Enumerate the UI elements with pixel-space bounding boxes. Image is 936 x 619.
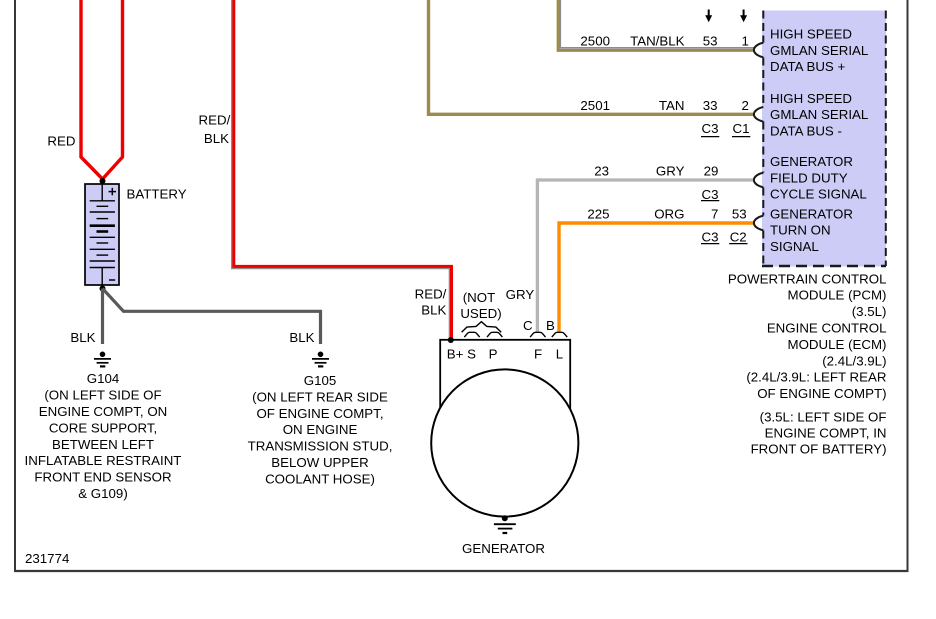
ground G104 bbox=[94, 352, 111, 367]
svg-text:POWERTRAIN CONTROL: POWERTRAIN CONTROL bbox=[728, 271, 887, 286]
label RED/BLK at generator bbox=[415, 287, 447, 318]
PCM module caption bbox=[728, 271, 887, 456]
bottom page border bbox=[14, 570, 909, 572]
svg-text:GENERATOR: GENERATOR bbox=[462, 541, 545, 556]
pin arrow 53 bbox=[705, 10, 712, 23]
caption G104 bbox=[25, 371, 182, 501]
node battery negative bbox=[100, 286, 106, 292]
svg-text:TAN: TAN bbox=[659, 98, 685, 113]
svg-text:GMLAN SERIAL: GMLAN SERIAL bbox=[770, 107, 868, 122]
svg-text:TRANSMISSION STUD,: TRANSMISSION STUD, bbox=[248, 439, 393, 454]
svg-text:ENGINE COMPT, ON: ENGINE COMPT, ON bbox=[39, 404, 168, 419]
svg-text:ENGINE CONTROL: ENGINE CONTROL bbox=[767, 321, 887, 336]
svg-text:C3: C3 bbox=[702, 187, 719, 202]
svg-text:(2.4L/3.9L: LEFT REAR: (2.4L/3.9L: LEFT REAR bbox=[746, 370, 886, 385]
svg-text:DATA BUS +: DATA BUS + bbox=[770, 59, 845, 74]
pin arrow 1 bbox=[740, 10, 747, 23]
svg-text:TAN/BLK: TAN/BLK bbox=[630, 34, 685, 49]
label (NOT USED) bbox=[460, 290, 501, 321]
generator terminal box bbox=[440, 340, 570, 412]
svg-text:MODULE (ECM): MODULE (ECM) bbox=[788, 337, 887, 352]
svg-text:BATTERY: BATTERY bbox=[127, 187, 187, 202]
label connector C2 row4 bbox=[729, 230, 747, 245]
wire RED battery feed V bbox=[81, 0, 102, 179]
PCM box right dashed edge bbox=[885, 11, 887, 267]
svg-text:53: 53 bbox=[732, 207, 747, 222]
PCM box left dashed edge bbox=[762, 11, 764, 267]
svg-text:B+ S: B+ S bbox=[447, 346, 476, 361]
svg-text:GRY: GRY bbox=[506, 287, 535, 302]
connector arc pin 29 bbox=[754, 173, 763, 188]
module PCM box fill bbox=[762, 11, 886, 267]
svg-text:TURN ON: TURN ON bbox=[770, 223, 831, 238]
svg-text:BLK: BLK bbox=[70, 330, 95, 345]
svg-text:GENERATOR: GENERATOR bbox=[770, 206, 853, 221]
connector arc pin 2 bbox=[754, 107, 763, 122]
connector arc pin 1 bbox=[754, 43, 763, 58]
svg-text:INFLATABLE RESTRAINT: INFLATABLE RESTRAINT bbox=[25, 453, 182, 468]
wire BLK to G105 bbox=[103, 289, 321, 345]
svg-text:HIGH SPEED: HIGH SPEED bbox=[770, 91, 852, 106]
svg-text:BETWEEN LEFT: BETWEEN LEFT bbox=[52, 437, 154, 452]
svg-text:GENERATOR: GENERATOR bbox=[770, 154, 853, 169]
svg-text:BLK: BLK bbox=[204, 131, 229, 146]
svg-text:BELOW UPPER: BELOW UPPER bbox=[271, 455, 369, 470]
svg-text:29: 29 bbox=[704, 164, 719, 179]
svg-text:(2.4L/3.9L): (2.4L/3.9L) bbox=[822, 353, 886, 368]
svg-text:2: 2 bbox=[741, 98, 748, 113]
svg-text:GRY: GRY bbox=[656, 164, 685, 179]
svg-text:B: B bbox=[546, 318, 555, 333]
svg-text:7: 7 bbox=[711, 207, 718, 222]
node battery positive bbox=[100, 178, 106, 184]
generator circle bbox=[431, 369, 578, 516]
svg-text:& G109): & G109) bbox=[78, 486, 128, 501]
wire GRY 23 bbox=[537, 180, 753, 332]
terminal arc B bbox=[552, 332, 567, 337]
svg-text:OF ENGINE COMPT,: OF ENGINE COMPT, bbox=[256, 406, 383, 421]
svg-text:33: 33 bbox=[703, 98, 718, 113]
svg-text:P: P bbox=[489, 346, 498, 361]
label connector C3 row3 bbox=[701, 187, 719, 202]
PCM box bottom dashed edge bbox=[762, 265, 886, 268]
ground G105 bbox=[312, 352, 329, 367]
svg-text:2500: 2500 bbox=[580, 34, 610, 49]
label connector C3 row4 bbox=[701, 230, 719, 245]
brace over unused terminals bbox=[462, 322, 502, 333]
svg-text:F: F bbox=[534, 346, 542, 361]
wire RED/BLK battery to generator bbox=[232, 0, 450, 340]
svg-text:RED: RED bbox=[47, 134, 75, 149]
svg-text:(3.5L): (3.5L) bbox=[852, 304, 887, 319]
svg-text:L: L bbox=[556, 346, 563, 361]
svg-text:SIGNAL: SIGNAL bbox=[770, 239, 819, 254]
battery BAT bbox=[85, 184, 119, 285]
svg-text:RED/: RED/ bbox=[415, 287, 447, 302]
terminal arc C bbox=[530, 332, 545, 337]
wire ORG 225 bbox=[559, 223, 754, 332]
svg-text:ORG: ORG bbox=[654, 207, 684, 222]
svg-text:(ON LEFT SIDE OF: (ON LEFT SIDE OF bbox=[44, 388, 161, 403]
svg-text:RED/: RED/ bbox=[199, 113, 231, 128]
svg-text:USED): USED) bbox=[460, 306, 501, 321]
svg-text:(NOT: (NOT bbox=[463, 290, 496, 305]
svg-text:C: C bbox=[523, 318, 533, 333]
PCM pin text GENERATOR TURN ON SIGNAL bbox=[770, 206, 853, 254]
svg-text:BLK: BLK bbox=[289, 330, 314, 345]
left page border bbox=[14, 0, 16, 572]
generator ground bbox=[494, 524, 516, 533]
PCM pin text HIGH SPEED GMLAN SERIAL DATA BUS - bbox=[770, 91, 868, 139]
svg-text:ON ENGINE: ON ENGINE bbox=[283, 422, 358, 437]
svg-text:23: 23 bbox=[594, 164, 609, 179]
wire TAN/BLK 2500 bbox=[558, 0, 754, 50]
svg-text:(3.5L: LEFT SIDE OF: (3.5L: LEFT SIDE OF bbox=[760, 410, 887, 425]
generator ground node bbox=[502, 515, 508, 521]
svg-text:ENGINE COMPT, IN: ENGINE COMPT, IN bbox=[765, 426, 887, 441]
svg-text:231774: 231774 bbox=[25, 551, 69, 566]
svg-text:MODULE (PCM): MODULE (PCM) bbox=[788, 288, 887, 303]
svg-text:CORE SUPPORT,: CORE SUPPORT, bbox=[49, 420, 157, 435]
label connector C3 row2 bbox=[701, 121, 719, 137]
svg-text:(ON LEFT REAR SIDE: (ON LEFT REAR SIDE bbox=[252, 389, 388, 404]
svg-text:FRONT OF BATTERY): FRONT OF BATTERY) bbox=[751, 442, 887, 457]
svg-text:1: 1 bbox=[741, 34, 748, 49]
unused terminal arc P bbox=[487, 332, 502, 337]
svg-text:FRONT END SENSOR: FRONT END SENSOR bbox=[34, 470, 171, 485]
svg-text:GMLAN SERIAL: GMLAN SERIAL bbox=[770, 43, 868, 58]
unused terminal arc S bbox=[464, 332, 479, 337]
svg-text:HIGH SPEED: HIGH SPEED bbox=[770, 27, 852, 42]
svg-text:G105: G105 bbox=[304, 373, 337, 388]
svg-text:OF ENGINE COMPT): OF ENGINE COMPT) bbox=[757, 386, 886, 401]
svg-text:COOLANT HOSE): COOLANT HOSE) bbox=[265, 471, 375, 486]
svg-text:G104: G104 bbox=[87, 371, 120, 386]
wire TAN 2501 bbox=[429, 0, 754, 114]
right page border bbox=[907, 0, 909, 572]
svg-text:C3: C3 bbox=[702, 230, 719, 245]
svg-text:FIELD DUTY: FIELD DUTY bbox=[770, 170, 848, 185]
svg-text:C3: C3 bbox=[702, 121, 719, 136]
svg-text:2501: 2501 bbox=[580, 98, 610, 113]
PCM pin text HIGH SPEED GMLAN SERIAL DATA BUS + bbox=[770, 27, 868, 75]
label RED/BLK top bbox=[199, 113, 231, 147]
svg-text:C2: C2 bbox=[730, 230, 747, 245]
connector arc pin 7 bbox=[754, 216, 763, 231]
svg-text:53: 53 bbox=[703, 34, 718, 49]
svg-text:C1: C1 bbox=[733, 121, 750, 136]
wire BLK to G104 bbox=[101, 289, 104, 345]
label connector C1 row2 bbox=[732, 121, 750, 137]
svg-text:DATA BUS -: DATA BUS - bbox=[770, 123, 842, 138]
svg-text:225: 225 bbox=[587, 207, 609, 222]
svg-text:BLK: BLK bbox=[421, 303, 446, 318]
caption G105 bbox=[248, 373, 393, 486]
PCM pin text GENERATOR FIELD DUTY CYCLE SIGNAL bbox=[770, 154, 867, 202]
node B+ junction bbox=[448, 337, 454, 343]
svg-text:CYCLE SIGNAL: CYCLE SIGNAL bbox=[770, 187, 867, 202]
